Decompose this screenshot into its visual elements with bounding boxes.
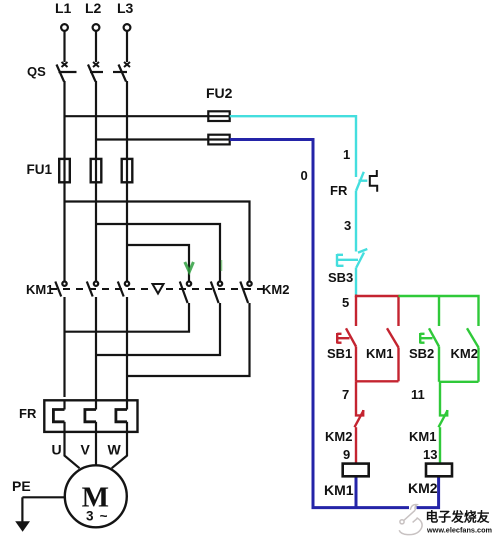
svg-text:PE: PE bbox=[12, 478, 31, 494]
svg-text:L1: L1 bbox=[55, 0, 72, 16]
svg-text:7: 7 bbox=[342, 387, 349, 402]
svg-text:FU2: FU2 bbox=[206, 85, 233, 101]
svg-text:电子发烧友: 电子发烧友 bbox=[426, 510, 490, 525]
svg-text:KM1: KM1 bbox=[409, 429, 436, 444]
svg-text:L3: L3 bbox=[117, 0, 134, 16]
svg-text:KM2: KM2 bbox=[451, 346, 478, 361]
svg-text:SB1: SB1 bbox=[327, 346, 352, 361]
svg-text:KM1: KM1 bbox=[324, 482, 354, 498]
svg-text:SB3: SB3 bbox=[328, 270, 353, 285]
svg-text:SB2: SB2 bbox=[409, 346, 434, 361]
svg-text:KM2: KM2 bbox=[325, 429, 352, 444]
svg-text:L2: L2 bbox=[85, 0, 102, 16]
svg-text:KM1: KM1 bbox=[26, 282, 53, 297]
svg-text:3: 3 bbox=[344, 218, 351, 233]
svg-text:KM1: KM1 bbox=[366, 346, 393, 361]
svg-text:1: 1 bbox=[343, 147, 350, 162]
svg-text:9: 9 bbox=[343, 447, 350, 462]
svg-text:3 ~: 3 ~ bbox=[86, 509, 109, 524]
svg-text:W: W bbox=[108, 442, 122, 458]
svg-text:QS: QS bbox=[27, 64, 46, 79]
svg-text:FR: FR bbox=[19, 406, 37, 421]
svg-text:11: 11 bbox=[411, 387, 425, 402]
svg-text:FU1: FU1 bbox=[27, 162, 53, 177]
svg-text:FR: FR bbox=[330, 183, 348, 198]
svg-text:V: V bbox=[81, 442, 91, 458]
svg-text:13: 13 bbox=[423, 447, 437, 462]
svg-text:U: U bbox=[52, 442, 62, 458]
svg-text:KM2: KM2 bbox=[262, 282, 289, 297]
svg-text:www.elecfans.com: www.elecfans.com bbox=[426, 526, 493, 535]
svg-text:KM2: KM2 bbox=[408, 480, 438, 496]
svg-text:5: 5 bbox=[342, 295, 349, 310]
svg-text:0: 0 bbox=[301, 168, 308, 183]
